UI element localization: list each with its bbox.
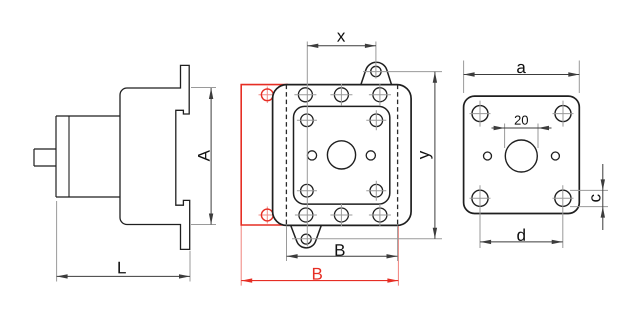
small pin hole right [551, 152, 559, 160]
dimension A line [210, 88, 212, 225]
dimension 20 arrows (outside) [494, 126, 549, 130]
dimension L line [57, 275, 190, 277]
boss hole bottom-left [301, 184, 314, 197]
top ear hole [371, 66, 381, 76]
bottom ear hole [301, 234, 311, 244]
hidden edge dashed right [397, 85, 399, 226]
dimension x arrows [307, 44, 376, 48]
dimension a line [464, 74, 580, 76]
dimension a arrows [464, 72, 580, 76]
label c [591, 194, 600, 201]
dimension 20 extension lines [505, 124, 538, 149]
red B extension lines [241, 225, 398, 286]
label B black [336, 244, 345, 256]
label A [198, 150, 210, 161]
plate hole row top crosshairs [294, 84, 391, 106]
corner holes crosshairs [470, 101, 574, 248]
dimension B black line [287, 255, 398, 257]
main housing outline with flange tabs [120, 65, 190, 249]
dimension L arrows [57, 274, 190, 278]
small pin hole right [366, 151, 375, 160]
label x [337, 33, 345, 42]
dimension x extension lines [307, 42, 376, 247]
bottom mounting ear [291, 225, 322, 248]
plate outline [464, 96, 580, 213]
dimension c arrows (outside) [601, 179, 605, 217]
red crosshair top-left [259, 87, 277, 104]
dimension A arrows [209, 88, 213, 225]
label L [118, 262, 125, 274]
red B dimension line [241, 280, 398, 282]
red crosshair bottom-left [259, 207, 277, 224]
hidden edge dashed left [285, 85, 287, 226]
dimension c extension lines [570, 190, 608, 206]
top ear hole centerlines [363, 71, 442, 73]
boss hole top-left [301, 114, 314, 127]
red gasket hole bottom-left [261, 209, 273, 221]
plate hole row bottom crosshairs [295, 204, 391, 226]
boss hole bottom-right [370, 184, 383, 197]
dimension y line [434, 72, 436, 239]
rear body inner line [68, 116, 70, 197]
dimension 20 line with tails [492, 127, 552, 129]
red B arrows [241, 278, 398, 282]
corner hole bottom-left [472, 190, 488, 206]
red label B [313, 268, 322, 280]
raised boss [294, 106, 390, 204]
red gasket hole top-left [261, 89, 273, 101]
dimension d arrows [480, 240, 563, 244]
plate hole row top [298, 88, 312, 102]
top mounting ear [361, 62, 392, 85]
small pin hole left [307, 151, 316, 160]
corner hole top-left [472, 106, 488, 122]
center circle [327, 141, 355, 169]
bottom ear hole centerline [292, 238, 442, 240]
flange plate [273, 85, 412, 226]
dimension B black extension lines [287, 226, 398, 262]
label y [420, 151, 433, 159]
boss hole top-right [370, 114, 383, 127]
dimension y arrows [433, 72, 437, 239]
dimension a extension lines [464, 61, 580, 94]
label d [517, 228, 525, 240]
dimension B black arrows [287, 254, 398, 258]
corner hole bottom-right [555, 190, 571, 206]
dimension c line [602, 164, 604, 230]
dimension d line [480, 241, 563, 243]
dimension L extension lines [57, 201, 190, 282]
label 20 [515, 116, 528, 125]
center circle [505, 140, 537, 172]
cable stub [34, 149, 56, 166]
small pin hole left [484, 152, 492, 160]
corner hole top-right [555, 106, 571, 122]
dimension A extension lines [191, 88, 216, 225]
red gasket outline [241, 85, 291, 225]
dimension x line [307, 45, 376, 47]
boss holes crosshairs [297, 110, 386, 200]
label a [517, 64, 526, 73]
plate hole row bottom [299, 208, 313, 222]
rear body [56, 116, 120, 197]
